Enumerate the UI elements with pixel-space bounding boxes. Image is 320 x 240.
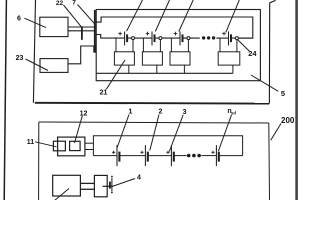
svg-text:1: 1 xyxy=(128,109,132,116)
svg-text:sd: sd xyxy=(231,110,236,115)
svg-text:4: 4 xyxy=(137,175,141,182)
svg-text:3: 3 xyxy=(183,109,187,116)
svg-text:7: 7 xyxy=(72,0,76,7)
svg-text:2: 2 xyxy=(159,109,163,116)
svg-text:200: 200 xyxy=(281,116,295,125)
svg-text:11: 11 xyxy=(27,139,35,146)
svg-text:6: 6 xyxy=(17,15,21,22)
svg-text:5: 5 xyxy=(281,89,285,98)
svg-text:21: 21 xyxy=(100,90,108,97)
svg-text:24: 24 xyxy=(248,49,257,58)
svg-text:12: 12 xyxy=(80,111,88,118)
svg-text:23: 23 xyxy=(16,55,24,62)
svg-text:22: 22 xyxy=(56,0,64,7)
